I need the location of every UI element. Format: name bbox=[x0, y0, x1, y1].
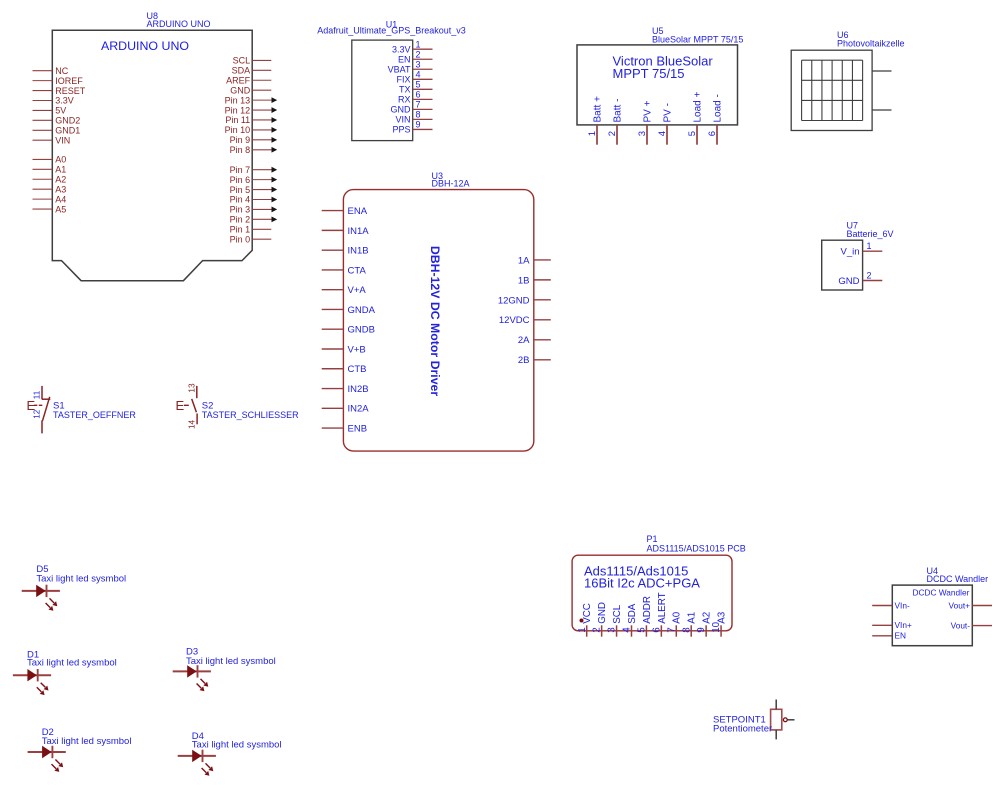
svg-text:Pin 10: Pin 10 bbox=[225, 125, 251, 135]
svg-text:Taxi light led sysmbol: Taxi light led sysmbol bbox=[36, 573, 126, 584]
svg-text:3.3V: 3.3V bbox=[392, 44, 411, 54]
svg-text:RESET: RESET bbox=[55, 86, 86, 96]
svg-text:Taxi light led sysmbol: Taxi light led sysmbol bbox=[192, 740, 282, 751]
svg-text:EN: EN bbox=[398, 54, 411, 64]
svg-text:Taxi light led sysmbol: Taxi light led sysmbol bbox=[186, 656, 276, 667]
svg-text:VIN: VIN bbox=[55, 135, 70, 145]
svg-text:3: 3 bbox=[607, 627, 618, 633]
U8 pin RESET bbox=[33, 86, 86, 96]
U8 pin IOREF bbox=[33, 76, 84, 86]
U8 pin Pin 2 bbox=[230, 215, 278, 225]
U1 pin 6 RX bbox=[398, 90, 433, 105]
P1 pin 8 A1 bbox=[681, 612, 697, 637]
U8 pin GND bbox=[230, 85, 271, 95]
switch S2 TASTER_SCHLIESSER (NO pushbutton) bbox=[176, 386, 198, 424]
svg-text:2B: 2B bbox=[518, 355, 530, 366]
U8 pin A5 bbox=[33, 204, 67, 214]
svg-text:Potentiometer: Potentiometer bbox=[713, 724, 772, 735]
svg-text:Pin 6: Pin 6 bbox=[230, 175, 251, 185]
U5 pin 4 PV - bbox=[657, 103, 673, 145]
svg-text:12VDC: 12VDC bbox=[499, 315, 530, 326]
svg-text:A2: A2 bbox=[55, 174, 66, 184]
S1 pin number 11 bbox=[32, 390, 41, 399]
LED D5 Taxi light led symbol bbox=[22, 585, 60, 611]
U4 pin Vout+ bbox=[949, 600, 992, 610]
U8 pin 5V bbox=[33, 106, 67, 116]
svg-text:GND1: GND1 bbox=[55, 125, 80, 135]
svg-text:A1: A1 bbox=[687, 612, 698, 624]
U3 pin ENA bbox=[322, 206, 368, 217]
svg-text:A3: A3 bbox=[55, 184, 66, 194]
U7 pin 2 GND bbox=[838, 270, 882, 287]
svg-text:GNDB: GNDB bbox=[348, 325, 375, 336]
svg-text:A1: A1 bbox=[55, 165, 66, 175]
P1 pin 3 SCL bbox=[607, 604, 623, 637]
U5 pin 6 Load - bbox=[707, 94, 723, 145]
svg-text:Taxi light led sysmbol: Taxi light led sysmbol bbox=[42, 736, 132, 747]
svg-text:VIN: VIN bbox=[395, 115, 410, 125]
svg-text:GND: GND bbox=[597, 602, 608, 624]
svg-text:2A: 2A bbox=[518, 335, 530, 346]
svg-text:SDA: SDA bbox=[627, 603, 638, 624]
S1 reference designator + label bbox=[53, 401, 136, 420]
U4 value label DCDC Wandler bbox=[913, 587, 970, 597]
IC U5 BlueSolar MPPT 75/15 body bbox=[577, 45, 738, 125]
svg-text:9: 9 bbox=[696, 627, 707, 632]
svg-text:ENB: ENB bbox=[348, 423, 368, 434]
svg-text:ADDR: ADDR bbox=[642, 596, 653, 624]
P1 pin 7 A0 bbox=[666, 611, 682, 636]
U1 pin 7 GND bbox=[391, 100, 433, 115]
U5 pin 2 Batt - bbox=[607, 99, 623, 145]
svg-text:Pin 13: Pin 13 bbox=[225, 95, 251, 105]
D1 reference designator + label bbox=[27, 649, 117, 668]
U8 pin Pin 7 bbox=[230, 165, 278, 175]
svg-text:ALERT: ALERT bbox=[657, 592, 668, 623]
D2 reference designator + label bbox=[42, 727, 132, 747]
svg-text:GND: GND bbox=[230, 85, 251, 95]
svg-text:VBAT: VBAT bbox=[388, 64, 411, 74]
LED D3 Taxi light led symbol bbox=[173, 665, 211, 691]
U4 pin VIn+ bbox=[872, 620, 912, 630]
P1 pin 4 SDA bbox=[622, 603, 638, 637]
svg-text:DBH-12V DC Motor Driver: DBH-12V DC Motor Driver bbox=[428, 246, 442, 397]
svg-text:5: 5 bbox=[637, 627, 648, 633]
svg-text:Pin 9: Pin 9 bbox=[230, 135, 251, 145]
svg-text:2: 2 bbox=[607, 131, 618, 136]
U8 pin Pin 1 bbox=[230, 224, 272, 234]
svg-text:IN2B: IN2B bbox=[348, 384, 369, 395]
svg-text:5V: 5V bbox=[55, 106, 66, 116]
IC U8 ARDUINO UNO body bbox=[52, 30, 252, 280]
svg-text:1: 1 bbox=[577, 627, 588, 632]
svg-text:3: 3 bbox=[416, 59, 421, 69]
U1 pin 2 EN bbox=[398, 49, 433, 64]
svg-text:TASTER_OEFFNER: TASTER_OEFFNER bbox=[53, 410, 136, 420]
U3 pin 1A bbox=[518, 255, 551, 266]
U3 pin 2B bbox=[518, 355, 551, 366]
svg-text:IN2A: IN2A bbox=[348, 404, 370, 415]
SETPOINT1 pin 1 wire (top) bbox=[775, 700, 777, 710]
U8 pin A1 bbox=[33, 165, 67, 175]
svg-text:Vout-: Vout- bbox=[951, 620, 971, 630]
svg-text:Load -: Load - bbox=[713, 94, 724, 122]
svg-text:6: 6 bbox=[416, 90, 421, 100]
svg-text:Adafruit_Ultimate_GPS_Breakout: Adafruit_Ultimate_GPS_Breakout_v3 bbox=[317, 25, 466, 35]
U8 reference designator bbox=[147, 11, 211, 29]
svg-text:2: 2 bbox=[416, 49, 421, 59]
svg-text:5: 5 bbox=[687, 131, 698, 136]
svg-text:6: 6 bbox=[707, 131, 718, 136]
svg-text:TX: TX bbox=[399, 85, 411, 95]
svg-text:GND: GND bbox=[838, 276, 859, 287]
svg-text:EN: EN bbox=[895, 631, 907, 641]
svg-text:Pin 12: Pin 12 bbox=[225, 105, 251, 115]
svg-text:V+B: V+B bbox=[348, 344, 366, 355]
switch S1 TASTER_OEFFNER (NC pushbutton) bbox=[27, 386, 51, 434]
svg-text:1B: 1B bbox=[518, 275, 530, 286]
svg-text:DCDC Wandler: DCDC Wandler bbox=[927, 574, 989, 584]
U5 pin 3 PV + bbox=[637, 100, 653, 144]
svg-text:6: 6 bbox=[651, 627, 662, 633]
svg-text:4: 4 bbox=[657, 131, 668, 136]
svg-text:A4: A4 bbox=[55, 194, 66, 204]
U1 pin 3 VBAT bbox=[388, 59, 433, 74]
U8 pin Pin 5 bbox=[230, 185, 278, 195]
U3 pin CTA bbox=[322, 265, 367, 276]
svg-text:E: E bbox=[176, 398, 185, 413]
U8 pin A3 bbox=[33, 184, 67, 194]
U8 pin NC bbox=[33, 66, 69, 76]
U3 pin V+A bbox=[322, 285, 367, 296]
U8 pin Pin 0 bbox=[230, 234, 272, 244]
svg-text:Pin 4: Pin 4 bbox=[230, 195, 251, 205]
svg-text:SCL: SCL bbox=[612, 604, 623, 624]
svg-text:Pin 0: Pin 0 bbox=[230, 234, 251, 244]
svg-text:1: 1 bbox=[867, 241, 872, 251]
svg-text:Pin 11: Pin 11 bbox=[225, 115, 250, 125]
svg-text:VCC: VCC bbox=[582, 603, 593, 624]
svg-text:7: 7 bbox=[416, 100, 421, 110]
svg-text:TASTER_SCHLIESSER: TASTER_SCHLIESSER bbox=[202, 410, 299, 420]
svg-text:SDA: SDA bbox=[232, 66, 251, 76]
U8 pin Pin 3 bbox=[230, 205, 278, 215]
svg-text:IOREF: IOREF bbox=[55, 76, 83, 86]
U7 reference designator bbox=[847, 220, 894, 238]
U8 pin GND2 bbox=[33, 116, 81, 126]
IC U1 Adafruit_Ultimate_GPS_Breakout_v3 body bbox=[352, 40, 413, 141]
U8 pin A2 bbox=[33, 174, 67, 184]
U3 reference designator bbox=[432, 171, 470, 189]
P1 pin 9 A2 bbox=[696, 612, 712, 637]
svg-text:FIX: FIX bbox=[396, 74, 410, 84]
svg-text:Pin 3: Pin 3 bbox=[230, 205, 251, 215]
U5 reference designator bbox=[652, 26, 743, 44]
svg-text:A0: A0 bbox=[55, 155, 66, 165]
svg-text:IN1B: IN1B bbox=[348, 246, 369, 257]
U8 pin GND1 bbox=[33, 125, 81, 135]
P1 pin 5 ADDR bbox=[637, 596, 653, 637]
U7 pin 1 V_in bbox=[840, 241, 882, 258]
SETPOINT1 pin 3 wire (bottom) bbox=[775, 730, 777, 740]
svg-text:ARDUINO UNO: ARDUINO UNO bbox=[101, 39, 189, 53]
svg-text:1A: 1A bbox=[518, 255, 530, 266]
svg-text:7: 7 bbox=[666, 627, 677, 632]
svg-text:CTA: CTA bbox=[348, 265, 367, 276]
svg-text:13: 13 bbox=[187, 383, 196, 393]
svg-text:A5: A5 bbox=[55, 204, 66, 214]
U4 pin EN bbox=[872, 631, 906, 641]
S2 reference designator + label bbox=[202, 401, 299, 420]
U3 pin V+B bbox=[322, 344, 366, 355]
svg-text:DBH-12A: DBH-12A bbox=[432, 179, 470, 189]
U3 pin IN1A bbox=[322, 226, 370, 237]
svg-text:11: 11 bbox=[32, 390, 41, 399]
U6 pin - wire bbox=[872, 109, 891, 111]
U3 value label DBH-12V DC Motor Driver (vertical) bbox=[428, 246, 442, 397]
LED D1 Taxi light led symbol bbox=[13, 669, 51, 695]
U5 pin 1 Batt + bbox=[587, 96, 603, 145]
svg-text:Pin 7: Pin 7 bbox=[230, 165, 251, 175]
svg-text:IN1A: IN1A bbox=[348, 226, 370, 237]
U1 pin 5 TX bbox=[399, 80, 433, 95]
U3 pin 12GND bbox=[498, 295, 551, 306]
U8 pin Pin 11 bbox=[225, 115, 277, 125]
svg-text:1: 1 bbox=[416, 39, 421, 49]
svg-text:4: 4 bbox=[622, 627, 633, 633]
D3 reference designator + label bbox=[186, 647, 276, 667]
P1 pin 1 VCC bbox=[577, 603, 593, 637]
svg-text:PPS: PPS bbox=[392, 125, 410, 135]
svg-text:Batt -: Batt - bbox=[613, 99, 624, 123]
svg-text:A0: A0 bbox=[672, 611, 683, 624]
svg-text:3: 3 bbox=[637, 131, 648, 136]
U4 pin Vout- bbox=[951, 620, 992, 630]
svg-text:14: 14 bbox=[187, 419, 196, 429]
U3 pin GNDB bbox=[322, 325, 375, 336]
U3 pin 2A bbox=[518, 335, 551, 346]
U3 pin 1B bbox=[518, 275, 551, 286]
U1 pin 4 FIX bbox=[396, 69, 432, 84]
U1 pin 9 PPS bbox=[392, 120, 432, 135]
svg-text:MPPT 75/15: MPPT 75/15 bbox=[613, 66, 685, 81]
U8 pin SCL bbox=[233, 56, 272, 66]
S2 pin number 13 bbox=[187, 383, 196, 393]
connector P1 ADS1115/ADS1015 PCB body bbox=[572, 555, 732, 631]
U8 pin SDA bbox=[232, 66, 272, 76]
svg-text:2: 2 bbox=[592, 627, 603, 632]
P1 pin 2 GND bbox=[592, 602, 608, 637]
U8 pin 3.3V bbox=[33, 96, 74, 106]
svg-text:5: 5 bbox=[416, 80, 421, 90]
svg-text:10: 10 bbox=[711, 621, 722, 632]
svg-text:DCDC Wandler: DCDC Wandler bbox=[913, 587, 970, 597]
svg-text:Taxi light led sysmbol: Taxi light led sysmbol bbox=[27, 658, 117, 669]
U1 pin 1 3.3V bbox=[392, 39, 433, 54]
U3 pin ENB bbox=[322, 423, 367, 434]
U5 value label Victron BlueSolar MPPT 75/15 bbox=[613, 54, 714, 82]
potentiometer SETPOINT1 body bbox=[771, 709, 782, 730]
P1 reference designator bbox=[647, 534, 746, 553]
U6 reference designator bbox=[837, 30, 905, 48]
svg-text:16Bit I2c ADC+PGA: 16Bit I2c ADC+PGA bbox=[584, 576, 700, 591]
svg-text:VIn+: VIn+ bbox=[895, 620, 912, 630]
svg-text:9: 9 bbox=[416, 120, 421, 130]
svg-text:Pin 8: Pin 8 bbox=[230, 145, 251, 155]
U8 pin Pin 9 bbox=[230, 135, 278, 145]
U8 pin Pin 8 bbox=[230, 145, 278, 155]
svg-text:8: 8 bbox=[681, 627, 692, 633]
P1 value label Ads1115/Ads1015 16Bit I2c ADC+PGA bbox=[584, 564, 700, 591]
IC U6 Photovoltaikzelle solar panel body bbox=[791, 50, 872, 130]
svg-text:SCL: SCL bbox=[233, 56, 251, 66]
U3 pin CTB bbox=[322, 364, 367, 375]
svg-text:BlueSolar MPPT 75/15: BlueSolar MPPT 75/15 bbox=[652, 35, 743, 45]
svg-text:12: 12 bbox=[32, 409, 41, 419]
U6 pin + wire bbox=[872, 70, 891, 72]
P1 pin 10 A3 bbox=[711, 611, 727, 636]
U8 pin Pin 13 bbox=[225, 95, 278, 105]
svg-text:GND: GND bbox=[391, 105, 412, 115]
IC U4 DCDC Wandler body bbox=[892, 585, 972, 646]
D5 reference designator + label bbox=[36, 564, 126, 585]
svg-text:Vout+: Vout+ bbox=[949, 600, 971, 610]
svg-text:PV +: PV + bbox=[643, 100, 654, 122]
svg-text:ADS1115/ADS1015 PCB: ADS1115/ADS1015 PCB bbox=[647, 543, 746, 553]
svg-text:GNDA: GNDA bbox=[348, 305, 376, 316]
svg-text:Load +: Load + bbox=[693, 91, 704, 122]
svg-text:1: 1 bbox=[587, 131, 598, 136]
IC U7 Batterie_6V body bbox=[822, 240, 863, 290]
U5 pin 5 Load + bbox=[687, 91, 703, 144]
U3 pin IN2A bbox=[322, 404, 370, 415]
svg-text:CTB: CTB bbox=[348, 364, 367, 375]
U1 reference designator bbox=[317, 19, 466, 35]
U8 pin AREF bbox=[226, 75, 271, 85]
U8 value label ARDUINO UNO title bbox=[101, 39, 189, 53]
U1 pin 8 VIN bbox=[395, 110, 432, 125]
svg-text:GND2: GND2 bbox=[55, 116, 80, 126]
P1 pin 6 ALERT bbox=[651, 592, 667, 636]
svg-text:V_in: V_in bbox=[840, 247, 859, 258]
svg-text:4: 4 bbox=[416, 69, 421, 79]
svg-text:V+A: V+A bbox=[348, 285, 367, 296]
U8 pin Pin 4 bbox=[230, 195, 278, 205]
svg-text:ARDUINO UNO: ARDUINO UNO bbox=[147, 19, 211, 29]
svg-text:RX: RX bbox=[398, 95, 411, 105]
U8 pin VIN bbox=[33, 135, 71, 145]
svg-text:PV -: PV - bbox=[663, 103, 674, 122]
svg-text:12GND: 12GND bbox=[498, 295, 530, 306]
U3 pin 12VDC bbox=[499, 315, 551, 326]
S1 pin number 12 bbox=[32, 409, 41, 419]
U4 reference designator bbox=[927, 566, 989, 584]
svg-text:ENA: ENA bbox=[348, 206, 368, 217]
U8 pin Pin 12 bbox=[225, 105, 278, 115]
U4 pin VIn- bbox=[872, 600, 910, 610]
svg-text:NC: NC bbox=[55, 66, 68, 76]
svg-text:8: 8 bbox=[416, 110, 421, 120]
SETPOINT1 pin 2 wiper bbox=[783, 718, 794, 722]
S2 pin number 14 bbox=[187, 419, 196, 429]
D4 reference designator + label bbox=[192, 731, 282, 751]
U3 pin IN1B bbox=[322, 246, 369, 257]
P1 pin 1 dot bbox=[580, 619, 584, 623]
U8 pin A4 bbox=[33, 194, 67, 204]
U3 pin IN2B bbox=[322, 384, 369, 395]
U8 pin A0 bbox=[33, 155, 67, 165]
LED D4 Taxi light led symbol bbox=[178, 750, 216, 776]
svg-text:Pin 2: Pin 2 bbox=[230, 215, 251, 225]
IC U3 DBH-12A motor driver body bbox=[343, 190, 533, 452]
svg-text:Pin 5: Pin 5 bbox=[230, 185, 251, 195]
U3 pin GNDA bbox=[322, 305, 376, 316]
svg-text:Batt +: Batt + bbox=[593, 96, 604, 123]
U8 pin Pin 6 bbox=[230, 175, 278, 185]
svg-text:2: 2 bbox=[867, 270, 872, 280]
LED D2 Taxi light led symbol bbox=[28, 746, 66, 772]
svg-text:Photovoltaikzelle: Photovoltaikzelle bbox=[837, 39, 905, 49]
svg-text:AREF: AREF bbox=[226, 75, 251, 85]
svg-text:Pin 1: Pin 1 bbox=[230, 224, 251, 234]
U8 pin Pin 10 bbox=[225, 125, 278, 135]
svg-text:3.3V: 3.3V bbox=[55, 96, 74, 106]
SETPOINT1 reference designator + label bbox=[713, 714, 772, 734]
svg-text:VIn-: VIn- bbox=[895, 600, 910, 610]
svg-text:Batterie_6V: Batterie_6V bbox=[847, 229, 894, 239]
